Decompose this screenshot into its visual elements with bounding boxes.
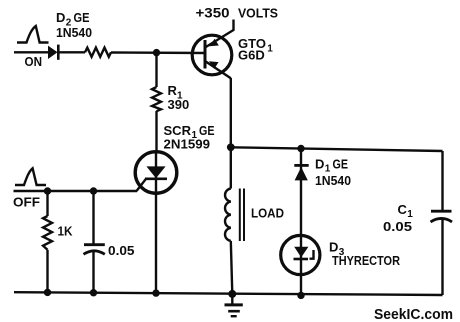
svg-text:C: C: [398, 202, 408, 217]
node: emitter / load / rail junction: [227, 143, 235, 151]
wire: 0.05 cap branch top: [92, 191, 94, 244]
wire: 1K bottom to rail: [46, 250, 48, 293]
label LOAD: [251, 206, 284, 221]
svg-text:1N540: 1N540: [315, 173, 351, 188]
label D1 GE: [315, 156, 348, 174]
wire: GTO emitter down to load node: [230, 78, 232, 147]
wire: OFF line / SCR gate: [14, 190, 138, 192]
label 0.05 (C1): [383, 219, 412, 234]
svg-text:SeekIC.com: SeekIC.com: [374, 307, 453, 322]
wire: ON input lead: [14, 51, 49, 53]
ON input pulse waveform: [17, 26, 49, 43]
wire: R1 branch from node: [155, 53, 157, 87]
node: D1 branch on emitter rail: [297, 145, 304, 152]
diode D1: [294, 165, 308, 180]
label 2N1599: [164, 137, 211, 152]
svg-text:R: R: [168, 83, 178, 98]
wire: load bottom to ground rail: [231, 241, 233, 294]
label D3: [329, 240, 345, 258]
svg-text:GE: GE: [74, 10, 90, 25]
label GTO1: [238, 36, 273, 54]
svg-text:D: D: [315, 156, 324, 171]
D3 triangle: [294, 247, 308, 258]
svg-text:D: D: [329, 240, 338, 255]
svg-text:390: 390: [168, 97, 190, 112]
svg-text:D: D: [56, 10, 65, 25]
label 1N540 (D1): [315, 173, 351, 188]
resistor 1K: [43, 216, 52, 250]
GTO emitter arrow (points toward base bar): [209, 61, 219, 69]
wire: 1K branch top: [46, 191, 48, 216]
node: 0.05 cap to rail: [90, 289, 97, 296]
svg-text:0.05: 0.05: [383, 219, 412, 234]
svg-text:VOLTS: VOLTS: [238, 6, 278, 21]
svg-text:+350: +350: [196, 5, 230, 20]
svg-text:1K: 1K: [58, 224, 74, 239]
wire: right edge upper: [441, 151, 443, 211]
wire: D1 branch vertical: [300, 149, 302, 297]
wire: load branch upper: [230, 147, 232, 188]
node: ground junction: [228, 290, 236, 298]
wire: right edge lower: [441, 219, 443, 296]
SCR cathode triangle: [146, 166, 165, 178]
transistor GTO1 (gate turn-off device): [192, 20, 233, 79]
label 0.05 (left): [108, 243, 135, 258]
capacitor 0.05 (left): [84, 245, 105, 255]
svg-text:THYRECTOR: THYRECTOR: [332, 254, 400, 268]
svg-text:2N1599: 2N1599: [164, 137, 211, 152]
svg-text:0.05: 0.05: [108, 243, 135, 258]
node: OFF line / 1K: [44, 187, 51, 194]
svg-text:1N540: 1N540: [56, 25, 92, 40]
label THYRECTOR: [332, 254, 400, 268]
node: D3 to bottom rail: [297, 292, 304, 299]
label OFF: [13, 194, 40, 209]
resistor R1: [152, 87, 161, 111]
diode D3 thyrector: [281, 235, 320, 274]
label G6D: [238, 48, 265, 63]
GTO collector arrow (points toward base bar): [209, 39, 219, 47]
diode D2: [48, 45, 58, 60]
wire: R1 to SCR anode: [155, 111, 157, 152]
node: SCR cathode to rail: [152, 289, 159, 296]
label R1: [168, 83, 184, 101]
wire: resistor to GTO base: [111, 51, 205, 54]
svg-text:GE: GE: [333, 156, 349, 171]
label D2 GE: [56, 10, 90, 28]
svg-text:OFF: OFF: [13, 194, 40, 209]
SCR1: [135, 152, 177, 294]
wire: 0.05 cap bottom to rail: [92, 251, 94, 293]
svg-text:1: 1: [267, 43, 273, 54]
label SCR1 GE: [164, 123, 215, 141]
label 390: [168, 97, 190, 112]
label ON: [25, 54, 43, 69]
OFF input pulse waveform: [15, 168, 46, 185]
node: OFF line / 0.05 cap: [90, 187, 97, 194]
label C1: [398, 202, 414, 220]
label +350 VOLTS: [196, 5, 279, 20]
watermark SeekIC.com: [374, 307, 453, 322]
wire: bottom ground rail: [14, 292, 443, 295]
svg-text:ON: ON: [25, 54, 43, 69]
label 1K: [58, 224, 74, 239]
svg-text:LOAD: LOAD: [251, 206, 284, 221]
ground: [225, 294, 243, 316]
inductor LOAD: [225, 189, 244, 242]
svg-text:G6D: G6D: [238, 48, 265, 63]
label 1N540: [56, 25, 92, 40]
resistor (series, horizontal): [85, 48, 111, 57]
node: 1K to rail: [44, 289, 51, 296]
wire: D2 to resistor: [58, 51, 85, 53]
capacitor C1: [431, 211, 453, 222]
node: junction of ON line and R1: [153, 49, 160, 56]
wire: emitter rail to right edge: [231, 147, 443, 151]
